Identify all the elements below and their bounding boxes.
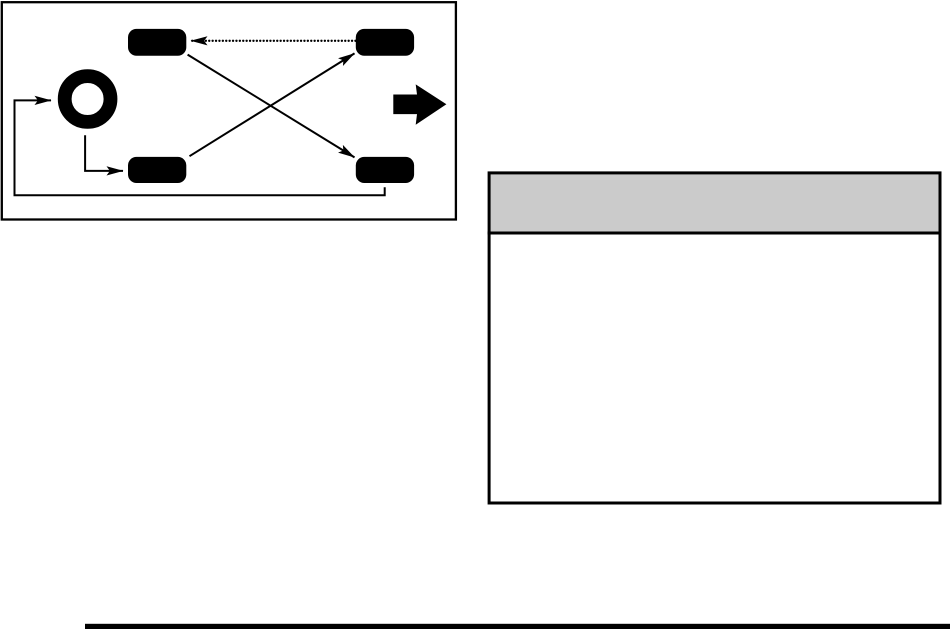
footer rule (85, 624, 950, 629)
table frame (489, 173, 940, 503)
arrow left-front to right-rear (diagonal) (188, 55, 355, 158)
table header fill (gray band) (490, 173, 940, 234)
wire feedback loop right-rear to spare tire (15, 100, 385, 195)
arrow left-rear to right-front (diagonal) (190, 53, 355, 156)
tire right-rear (bottom-right rounded rect) (356, 157, 414, 183)
diagram frame (tire rotation figure border) (2, 2, 456, 219)
dotted arrow right-front to left-front (191, 40, 356, 42)
spare tire (donut) (65, 76, 111, 122)
table header separator (488, 232, 942, 235)
big forward direction arrow (393, 84, 446, 124)
tire right-front (top-right rounded rect) (356, 29, 414, 56)
tire left-front (top-left rounded rect) (128, 29, 186, 56)
wire spare tire to left-rear (elbow with arrow) (85, 135, 123, 171)
tire left-rear (bottom-left rounded rect) (128, 157, 186, 183)
